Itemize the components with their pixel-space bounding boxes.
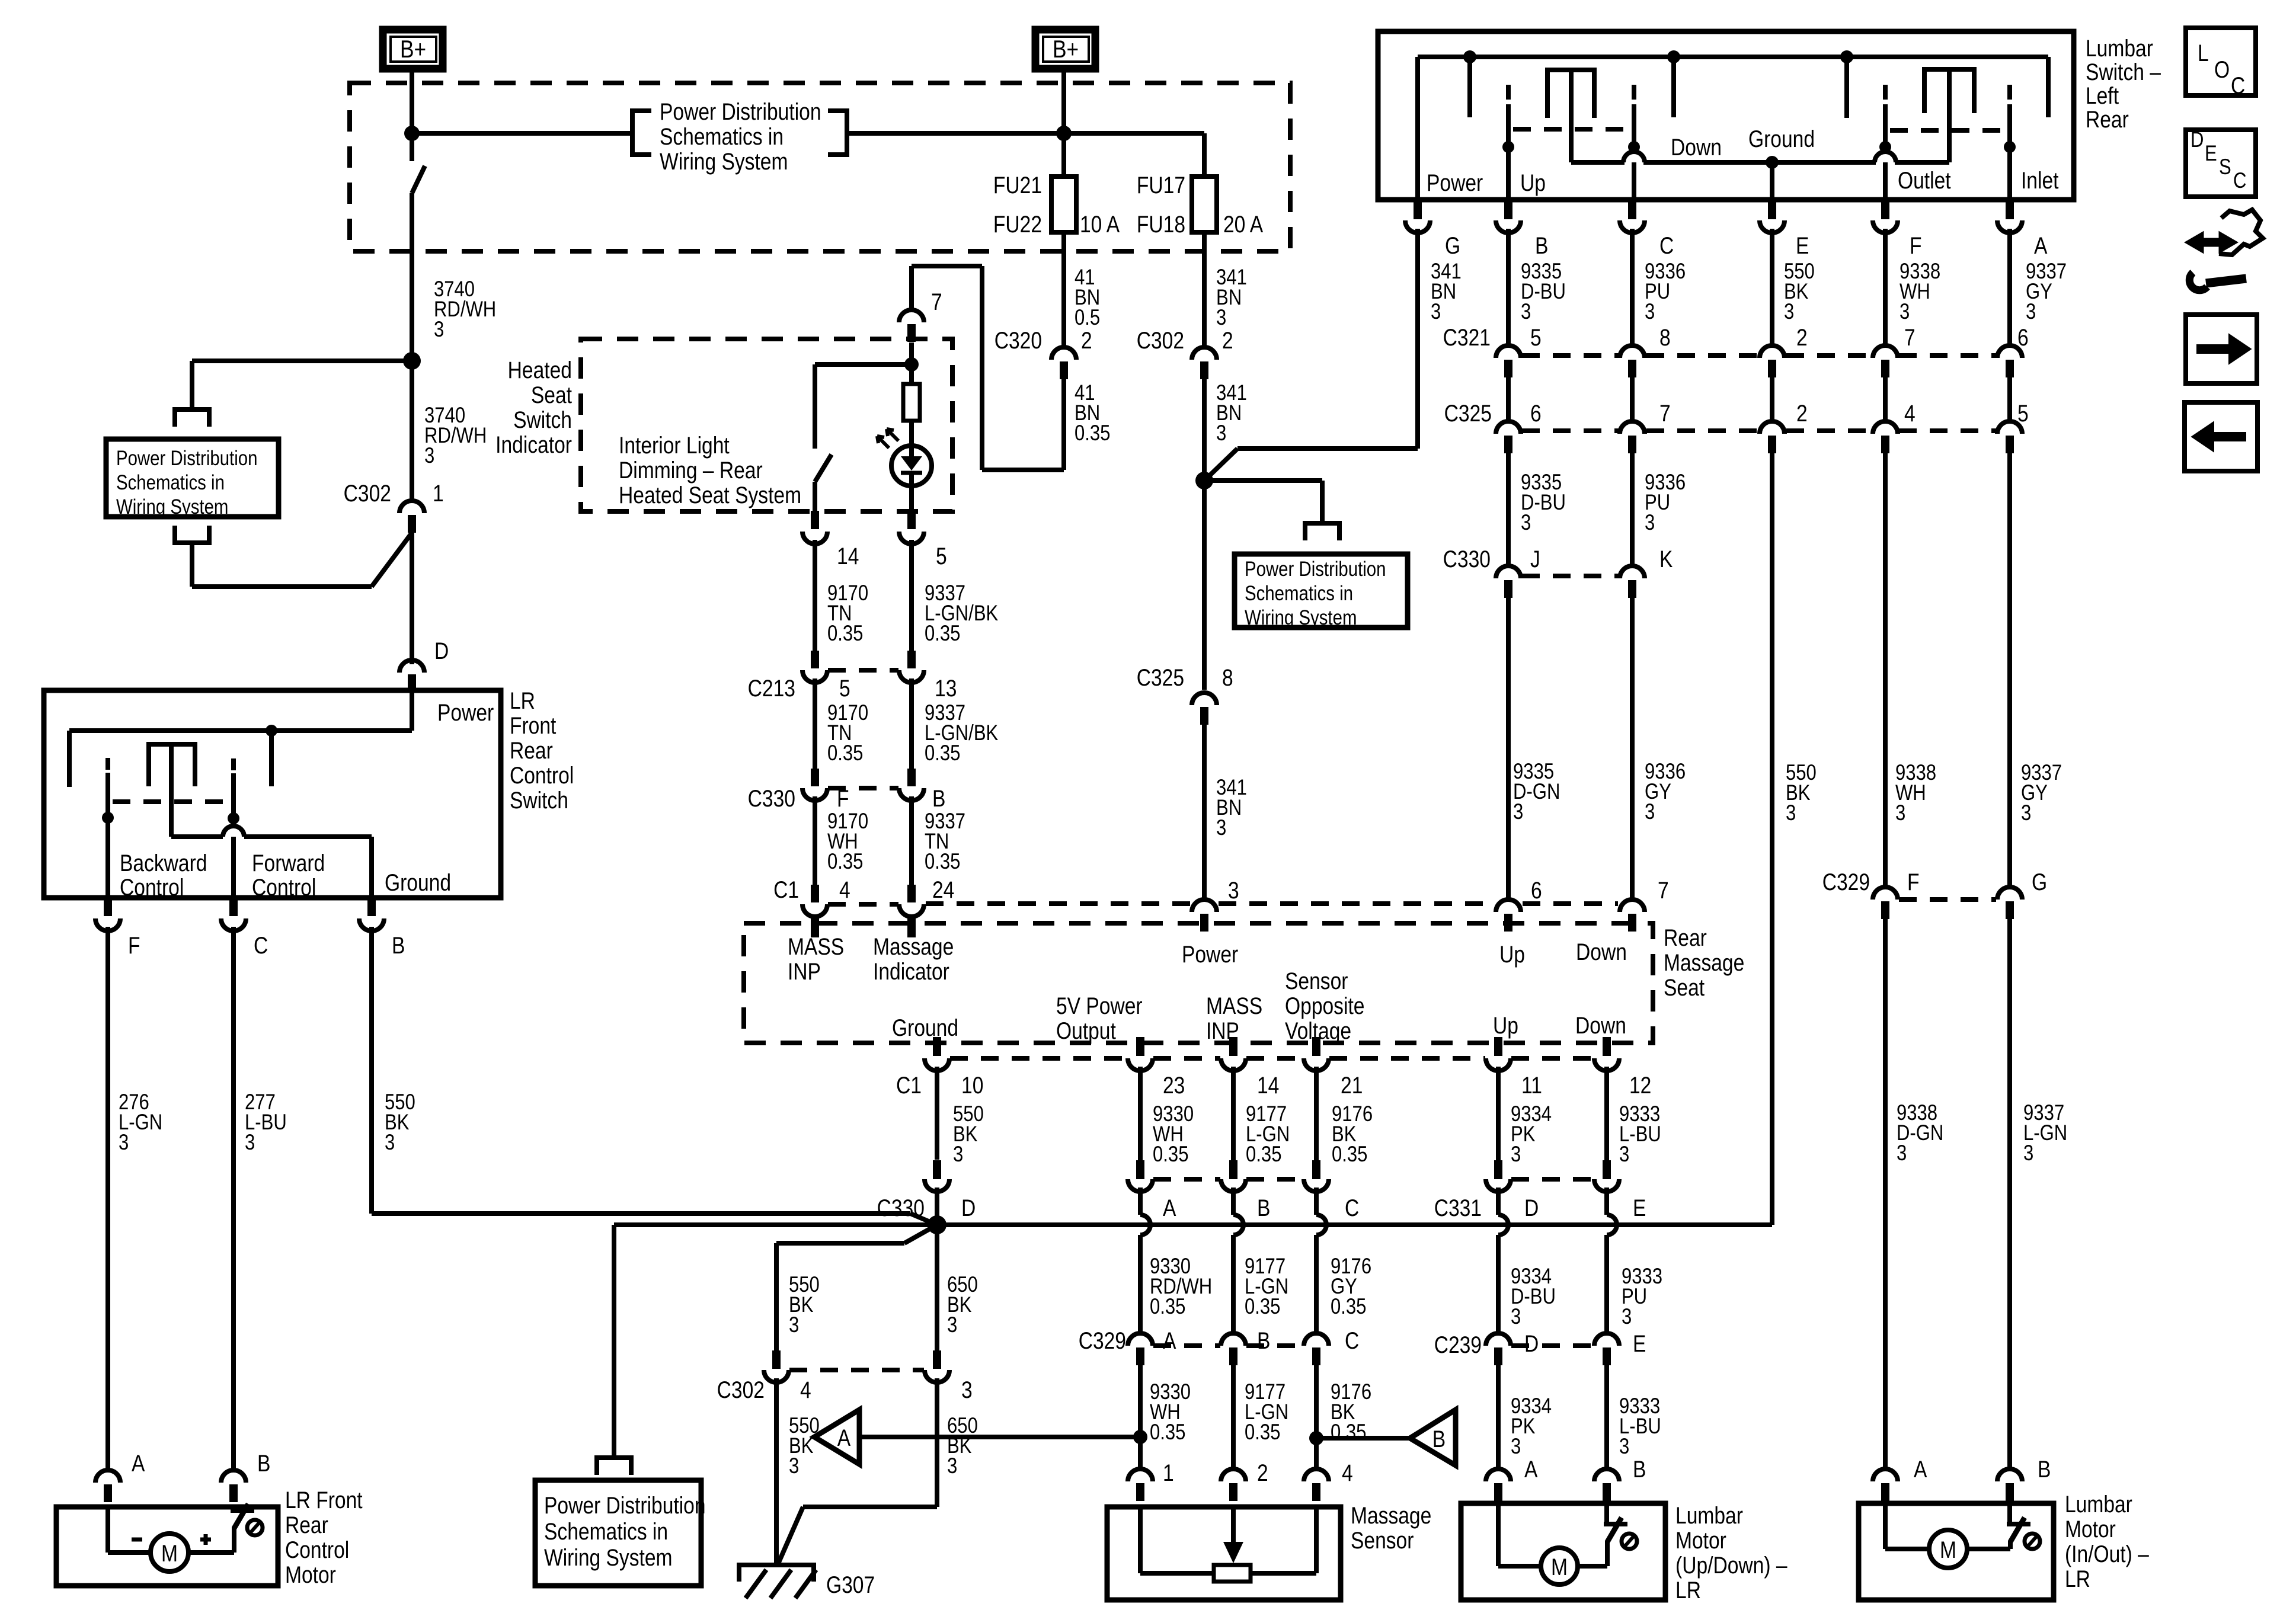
wire C1-11 down <box>1496 1067 1501 1160</box>
wire C302-3 to G307 <box>935 1378 939 1507</box>
LED indicator <box>891 446 932 486</box>
dashed link C213 <box>828 668 898 673</box>
svg-text:3: 3 <box>1511 1435 1521 1459</box>
connector lumbar pin F <box>1881 200 1889 219</box>
svg-text:B: B <box>257 1450 270 1476</box>
svg-text:C: C <box>1345 1327 1359 1353</box>
svg-text:Dimming – Rear: Dimming – Rear <box>619 457 763 483</box>
svg-text:5: 5 <box>839 675 850 701</box>
wire 9176 hop <box>1314 1188 1319 1215</box>
svg-text:C330: C330 <box>748 785 795 811</box>
connector lumbar pin C <box>1628 200 1636 219</box>
svg-text:S: S <box>2219 155 2231 180</box>
resistor of LED <box>903 384 920 421</box>
svg-text:Seat: Seat <box>531 382 572 408</box>
wire 9170 TN to C213 <box>813 540 817 651</box>
svg-text:G: G <box>2032 869 2047 895</box>
lumbar up/down motor symbol <box>1496 1503 1501 1566</box>
svg-text:3: 3 <box>1897 1141 1907 1166</box>
svg-text:3: 3 <box>1622 1305 1632 1329</box>
wire ground to junction <box>372 1211 910 1216</box>
svg-text:12: 12 <box>1629 1072 1651 1098</box>
connector C329 pin G <box>1997 887 2022 900</box>
svg-text:A: A <box>1914 1456 1927 1482</box>
svg-text:5: 5 <box>2017 400 2029 426</box>
svg-text:Motor: Motor <box>1675 1527 1726 1553</box>
svg-text:B: B <box>392 932 405 958</box>
svg-text:3: 3 <box>1511 1305 1521 1329</box>
wire C321-2 to C325-2 <box>1770 377 1774 422</box>
svg-text:E: E <box>2205 142 2217 166</box>
svg-text:Power: Power <box>437 699 494 725</box>
power distribution schematics box bottom <box>535 1480 701 1586</box>
svg-text:Massage: Massage <box>1664 949 1744 975</box>
connector C1 pin 21 <box>1312 1037 1320 1056</box>
connector C329 pin B <box>1221 1333 1246 1346</box>
svg-text:21: 21 <box>1341 1072 1363 1098</box>
svg-text:Ground: Ground <box>1748 126 1815 152</box>
svg-text:C329: C329 <box>1079 1327 1126 1353</box>
svg-text:C302: C302 <box>717 1377 765 1403</box>
wire 550 BK to ground bus <box>1770 453 1774 1225</box>
lumbar in/out motor symbol <box>1883 1503 1888 1549</box>
connector C302 pin 4 <box>772 1350 781 1369</box>
svg-text:0.35: 0.35 <box>1245 1420 1280 1445</box>
wire C1-14 down <box>1231 1067 1236 1160</box>
mechanical link up/down <box>1513 127 1629 132</box>
wire 9337 L-GN to in/out motor B <box>2007 918 2012 1470</box>
svg-text:Rear: Rear <box>285 1512 328 1538</box>
wire C1-21 down <box>1314 1067 1319 1160</box>
wire resistor to LED <box>909 421 914 456</box>
svg-text:Front: Front <box>510 712 556 738</box>
svg-text:A: A <box>1163 1195 1176 1221</box>
svg-text:0.35: 0.35 <box>1331 1420 1366 1445</box>
connector C325 pin 4 <box>1873 421 1898 434</box>
wire bus B+ to bracket label <box>412 131 632 136</box>
connector lumbar pin G <box>1414 200 1422 219</box>
dimming switch blade <box>813 364 817 449</box>
connector C1 pin 12 <box>1603 1037 1611 1056</box>
connector C1 pin 14 <box>1229 1037 1237 1056</box>
svg-text:G: G <box>1445 232 1460 258</box>
svg-text:3: 3 <box>947 1454 957 1478</box>
down blade with hop <box>1632 85 1636 100</box>
ground bus junction <box>935 1188 939 1225</box>
connector C325 pin 7 <box>1620 421 1645 434</box>
right arrow icon box <box>2186 315 2257 383</box>
svg-text:Power Distribution: Power Distribution <box>660 98 821 124</box>
svg-text:3: 3 <box>1895 801 1905 825</box>
svg-text:20 A: 20 A <box>1223 211 1264 237</box>
svg-text:3: 3 <box>1216 306 1226 330</box>
wire C1-12 down <box>1604 1067 1609 1160</box>
connector C1 pin 11 <box>1494 1037 1502 1056</box>
wire junction to left bracket <box>192 359 412 363</box>
svg-text:C239: C239 <box>1434 1331 1482 1358</box>
svg-text:3: 3 <box>961 1377 973 1403</box>
svg-text:1: 1 <box>1163 1459 1174 1486</box>
svg-text:Indicator: Indicator <box>495 431 572 457</box>
svg-text:M: M <box>161 1540 178 1566</box>
svg-text:7: 7 <box>1658 877 1669 903</box>
mechanical link outlet/inlet <box>1890 128 2005 133</box>
massage sensor box <box>1107 1507 1341 1600</box>
connector C302 pin 3 <box>933 1350 941 1369</box>
svg-text:3: 3 <box>953 1142 963 1167</box>
sensor wiper arrow <box>1231 1507 1236 1544</box>
svg-text:C1: C1 <box>773 876 799 902</box>
svg-text:10: 10 <box>961 1072 983 1098</box>
LOC icon box <box>2186 28 2256 95</box>
wire C321-7 to C325-4 <box>1883 377 1888 422</box>
svg-text:0.35: 0.35 <box>925 741 960 766</box>
wire 9330 WH to sensor pin 1 <box>1138 1365 1143 1470</box>
svg-text:C: C <box>2231 72 2245 98</box>
wire 9170 TN to C330 <box>813 678 817 769</box>
connector C330 pin D <box>933 1160 941 1179</box>
wire junction to power distribution bracket <box>1204 478 1322 483</box>
svg-text:Up: Up <box>1520 169 1546 196</box>
svg-text:G307: G307 <box>826 1571 875 1598</box>
wire 9177 hop <box>1231 1188 1236 1215</box>
svg-text:2: 2 <box>1081 327 1092 353</box>
svg-text:FU21: FU21 <box>993 172 1042 198</box>
svg-text:Switch: Switch <box>510 787 568 813</box>
svg-text:C: C <box>254 932 268 958</box>
svg-text:Schematics in: Schematics in <box>1245 582 1353 605</box>
svg-text:Wiring System: Wiring System <box>1245 606 1357 629</box>
svg-text:Down: Down <box>1576 939 1627 965</box>
connector C239 pin E <box>1594 1333 1619 1346</box>
svg-text:C325: C325 <box>1137 664 1184 690</box>
wire C320-2 down to loop <box>1061 377 1066 470</box>
svg-text:F: F <box>1910 232 1922 258</box>
svg-text:3: 3 <box>1216 421 1226 446</box>
svg-text:Inlet: Inlet <box>2021 167 2058 193</box>
svg-text:0.35: 0.35 <box>1245 1295 1280 1319</box>
svg-text:B+: B+ <box>400 36 426 63</box>
svg-text:Rear: Rear <box>510 737 553 763</box>
wire 277 L-BU to motor B <box>231 927 236 1471</box>
svg-text:Sensor: Sensor <box>1351 1527 1414 1553</box>
svg-text:Rear: Rear <box>2086 106 2129 132</box>
LR front rear control motor box <box>56 1507 278 1586</box>
bridge contact of switch <box>146 742 197 747</box>
wire 9337 GY from pin A <box>2007 229 2012 346</box>
svg-text:F: F <box>1907 869 1920 895</box>
inlet blade <box>2007 85 2012 100</box>
svg-text:K: K <box>1659 546 1673 572</box>
svg-text:B: B <box>932 785 945 811</box>
wire LED to box bottom <box>909 473 914 511</box>
svg-text:Power Distribution: Power Distribution <box>116 447 258 470</box>
svg-text:0.35: 0.35 <box>925 850 960 874</box>
wire forward pole to pin C with hop <box>223 826 244 837</box>
ground bus <box>614 1222 1772 1227</box>
fuse FU21/FU22 10A <box>1051 177 1076 232</box>
lumbar switch power bus <box>1418 55 2048 59</box>
svg-text:3: 3 <box>434 318 444 342</box>
svg-text:2: 2 <box>1796 324 1808 350</box>
junction to triangle B <box>1309 1431 1323 1445</box>
dashed row C1 bottom <box>950 1056 1127 1061</box>
svg-text:7: 7 <box>1904 324 1916 350</box>
connector C213 pin 13 <box>907 651 916 668</box>
wire 9330 to sensor with hop <box>1138 1188 1143 1215</box>
svg-text:6: 6 <box>1530 400 1542 426</box>
svg-text:C321: C321 <box>1443 324 1491 350</box>
outlet contact stub <box>1840 50 1853 63</box>
dashed row C329 FG <box>1899 897 1996 902</box>
svg-text:Control: Control <box>120 874 184 900</box>
svg-text:Power: Power <box>1182 941 1238 967</box>
wire backward pole to pin F <box>105 818 110 898</box>
wire switch to C302 pin 1 <box>410 193 414 501</box>
connector C325 pin 5 <box>1997 421 2022 434</box>
svg-text:4: 4 <box>1904 400 1916 426</box>
connector C321 pin 7 <box>1873 345 1898 358</box>
svg-text:5: 5 <box>936 543 947 569</box>
connector C331 pin E <box>1603 1160 1611 1179</box>
svg-text:LR: LR <box>2065 1566 2090 1592</box>
svg-text:Output: Output <box>1056 1017 1116 1044</box>
svg-text:Control: Control <box>510 762 574 788</box>
svg-text:Forward: Forward <box>252 850 325 876</box>
svg-text:B: B <box>1633 1456 1646 1482</box>
svg-text:14: 14 <box>837 543 859 569</box>
svg-text:Schematics in: Schematics in <box>116 471 225 494</box>
svg-text:C330: C330 <box>877 1195 925 1221</box>
wire 9336 GY to massage pin 7 <box>1630 597 1635 900</box>
svg-text:4: 4 <box>1342 1459 1353 1486</box>
contact stub forward <box>269 731 274 786</box>
svg-text:3: 3 <box>1784 300 1794 324</box>
svg-text:FU18: FU18 <box>1137 211 1185 237</box>
svg-text:14: 14 <box>1257 1072 1279 1098</box>
svg-text:Control: Control <box>285 1537 349 1563</box>
ground G307 <box>737 1563 816 1567</box>
svg-text:Up: Up <box>1493 1012 1518 1038</box>
svg-text:6: 6 <box>2017 324 2029 350</box>
svg-text:Lumbar: Lumbar <box>2086 35 2153 61</box>
switch ground bus <box>171 834 223 839</box>
svg-text:2: 2 <box>1222 327 1233 353</box>
svg-text:3: 3 <box>1900 300 1910 324</box>
svg-text:C1: C1 <box>896 1072 922 1098</box>
B+ terminal 1 <box>383 30 443 69</box>
left arrow icon box <box>2185 402 2257 471</box>
connector C321 pin 2 <box>1760 345 1785 358</box>
wire 9176 to sensor pin 4 <box>1314 1365 1319 1470</box>
triangle connector B <box>1410 1410 1456 1465</box>
wrench icon wrench <box>2206 279 2246 283</box>
svg-text:0.35: 0.35 <box>1246 1142 1281 1167</box>
wire B+2 to fuse FU21 <box>1061 69 1066 178</box>
fuse FU17/FU18 20A <box>1192 177 1217 232</box>
svg-text:Backward: Backward <box>120 850 207 876</box>
lumbar up/down motor limit switch <box>1605 1541 1610 1566</box>
svg-text:3: 3 <box>1619 1142 1629 1167</box>
svg-text:Schematics in: Schematics in <box>660 123 784 149</box>
lumbar motor in/out box <box>1859 1503 2054 1600</box>
wire 341 BN from pin G <box>1415 229 1420 449</box>
wire junction down 650 BK <box>935 1225 939 1350</box>
svg-text:Down: Down <box>1575 1012 1626 1038</box>
svg-text:Massage: Massage <box>1351 1502 1431 1528</box>
svg-text:MASS: MASS <box>1206 993 1262 1019</box>
svg-text:Lumbar: Lumbar <box>1675 1502 1743 1528</box>
lumbar ground bus <box>1571 160 1625 165</box>
wire fuse to C320 pin 2 <box>1061 232 1066 348</box>
wire bracket to C302 pin 1 <box>190 543 194 587</box>
dashed row C331 <box>1153 1177 1220 1182</box>
svg-text:0.35: 0.35 <box>1150 1295 1185 1319</box>
bracket below power distribution box left <box>175 526 209 543</box>
svg-text:3: 3 <box>789 1313 799 1337</box>
svg-text:Switch –: Switch – <box>2086 59 2161 85</box>
wire 9338 D-GN to in/out motor A <box>1883 918 1888 1470</box>
svg-text:3: 3 <box>1513 800 1523 824</box>
wire C302-2 to junction <box>1202 377 1207 690</box>
svg-text:A: A <box>1524 1456 1538 1482</box>
connector C1 pin 10 ground <box>933 1037 941 1056</box>
svg-text:5V Power: 5V Power <box>1056 993 1143 1019</box>
wire 9335 D-BU from pin B <box>1506 229 1511 346</box>
connector lumbar pin E <box>1768 200 1776 219</box>
svg-text:Wiring System: Wiring System <box>116 495 228 518</box>
svg-text:C: C <box>2233 169 2246 193</box>
svg-text:Ground: Ground <box>385 869 451 895</box>
dashed link C302 row <box>789 1368 924 1372</box>
svg-text:8: 8 <box>1659 324 1671 350</box>
wire 9337 GY to C329 G <box>2007 453 2012 888</box>
svg-text:3: 3 <box>1786 801 1796 825</box>
svg-text:Motor: Motor <box>285 1561 336 1587</box>
connector C325 pin 2 <box>1760 421 1785 434</box>
svg-text:24: 24 <box>932 876 954 902</box>
dashed row C330 JK <box>1522 574 1619 578</box>
svg-text:7: 7 <box>931 289 942 315</box>
svg-text:3: 3 <box>2023 1141 2033 1166</box>
junction node 341 BN <box>1195 472 1213 489</box>
svg-text:13: 13 <box>935 675 957 701</box>
svg-text:C302: C302 <box>1137 327 1184 353</box>
svg-text:3: 3 <box>1619 1435 1629 1459</box>
svg-text:Massage: Massage <box>873 933 954 959</box>
svg-text:C325: C325 <box>1444 400 1492 426</box>
svg-text:Motor: Motor <box>2065 1516 2116 1542</box>
svg-text:Up: Up <box>1499 941 1525 967</box>
wire C1-10 to C330 D <box>935 1067 939 1160</box>
junction LED feed <box>904 357 919 372</box>
svg-text:LR: LR <box>510 687 535 713</box>
svg-text:8: 8 <box>1222 664 1233 690</box>
wire 550 BK ground from switch <box>369 927 374 1214</box>
wire 9338 WH to C329 F <box>1883 453 1888 888</box>
svg-text:Interior Light: Interior Light <box>619 432 730 458</box>
svg-text:0.35: 0.35 <box>827 622 863 646</box>
wire 9335 D-GN to massage pin 6 <box>1506 597 1511 900</box>
svg-text:0.35: 0.35 <box>1153 1142 1188 1167</box>
connector C1 pin 24 <box>907 885 916 902</box>
wire C321-5 to C325-6 <box>1506 377 1511 422</box>
svg-text:C: C <box>1345 1195 1359 1221</box>
svg-text:3: 3 <box>119 1131 129 1155</box>
connector lumbar pin B <box>1504 200 1512 219</box>
svg-text:D: D <box>1524 1195 1539 1221</box>
lumbar motor up/down box <box>1461 1503 1665 1600</box>
power distribution dashed box <box>350 83 1290 251</box>
power distribution schematics box left <box>106 439 279 517</box>
connector C331 pin C <box>1312 1160 1320 1179</box>
junction node B+1 bus <box>404 126 420 141</box>
svg-text:3: 3 <box>385 1131 395 1155</box>
junction node at B+2 <box>1056 126 1072 141</box>
lumbar switch left rear box <box>1378 31 2074 200</box>
svg-text:Schematics in: Schematics in <box>544 1518 668 1544</box>
svg-text:3: 3 <box>1645 800 1655 824</box>
wire 550 BK from pin E <box>1770 229 1774 346</box>
massage sensor interior <box>1138 1507 1143 1573</box>
dashed row C325 <box>1522 428 1619 433</box>
svg-text:3: 3 <box>1645 300 1655 324</box>
svg-text:3: 3 <box>2026 300 2036 324</box>
wire C321-8 to C325-7 <box>1630 377 1635 422</box>
svg-text:E: E <box>1796 232 1809 258</box>
down contact stub <box>1667 50 1680 63</box>
svg-text:6: 6 <box>1531 877 1542 903</box>
switch blade backward <box>105 758 110 770</box>
wire 9337 L-GN/BK to C213 <box>909 540 914 651</box>
svg-text:B: B <box>1257 1327 1270 1353</box>
svg-text:5: 5 <box>1530 324 1542 350</box>
svg-text:A: A <box>2034 232 2048 258</box>
svg-text:A: A <box>132 1450 145 1476</box>
svg-text:B: B <box>2038 1456 2051 1482</box>
triangle connector A <box>814 1410 859 1464</box>
wire 9170 WH to C1 <box>813 796 817 885</box>
svg-text:3: 3 <box>1228 877 1239 903</box>
bracket above power distribution box left <box>175 409 209 427</box>
connector C1 pin 23 <box>1136 1037 1144 1056</box>
dashed link C330 <box>828 786 898 790</box>
up blade <box>1506 85 1511 100</box>
junction to triangle A <box>1133 1430 1147 1444</box>
svg-text:3: 3 <box>1511 1142 1521 1167</box>
bracket to power distribution schematics <box>1305 523 1339 540</box>
svg-text:11: 11 <box>1521 1072 1542 1098</box>
wire pin7 into indicator <box>909 343 914 384</box>
svg-text:3: 3 <box>1645 511 1655 535</box>
svg-text:Down: Down <box>1671 134 1722 160</box>
wire 9333 L-BU to motor B <box>1604 1365 1609 1470</box>
svg-text:B: B <box>1432 1426 1446 1452</box>
svg-text:3: 3 <box>1521 300 1531 324</box>
svg-text:E: E <box>1633 1195 1646 1221</box>
connector C331 pin B <box>1229 1160 1237 1179</box>
svg-text:2: 2 <box>1257 1459 1268 1486</box>
svg-text:C: C <box>1659 232 1674 258</box>
svg-text:B+: B+ <box>1053 36 1079 63</box>
svg-text:3: 3 <box>947 1313 957 1337</box>
DESC icon box <box>2186 130 2256 197</box>
svg-text:0.35: 0.35 <box>1331 1295 1366 1319</box>
svg-text:M: M <box>1940 1537 1956 1563</box>
B+ terminal 2 <box>1035 30 1095 69</box>
dashed row C329/C239 <box>1153 1343 1220 1348</box>
wire C302-1 to connector D <box>410 533 414 664</box>
